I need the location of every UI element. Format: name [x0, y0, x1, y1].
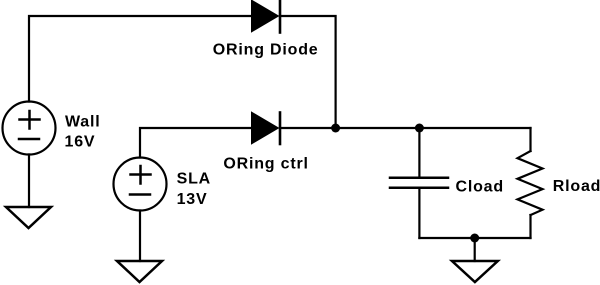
wire capacitor bottom to bottom rail [418, 189, 420, 239]
wire V1 bottom to ground [28, 155, 30, 208]
ground under V2 [117, 261, 162, 282]
svg-text:ORing Diode: ORing Diode [213, 42, 319, 59]
svg-text:ORing ctrl: ORing ctrl [223, 155, 308, 172]
wire node B to capacitor top [418, 128, 420, 177]
wire Wall top to D1 anode [29, 16, 252, 102]
node A junction dot [331, 124, 340, 133]
voltage source V1 Wall 16V [3, 102, 56, 155]
resistor Rload [518, 128, 543, 238]
svg-text:Cload: Cload [456, 178, 504, 195]
diode D1 ORing Diode [252, 1, 280, 33]
wire D2 cathode to Rload top [280, 127, 531, 129]
node B junction dot [415, 124, 424, 133]
wire D1 cathode to node A [280, 16, 336, 124]
svg-text:Wall: Wall [65, 113, 101, 130]
capacitor Cload [390, 178, 448, 188]
node C junction dot [470, 234, 479, 243]
wire V2 bottom to ground [139, 211, 141, 262]
ground under V1 [6, 207, 51, 228]
svg-text:Rload: Rload [553, 178, 600, 195]
svg-text:SLA: SLA [177, 170, 211, 187]
ground bottom right [452, 261, 498, 282]
wire bottom rail [419, 237, 530, 239]
diode D2 ORing ctrl [252, 113, 280, 145]
svg-text:16V: 16V [65, 134, 96, 151]
voltage source V2 SLA 13V [114, 158, 167, 211]
svg-text:13V: 13V [177, 191, 208, 208]
wire node C to ground [474, 238, 476, 261]
wire SLA top to D2 anode [140, 128, 252, 158]
